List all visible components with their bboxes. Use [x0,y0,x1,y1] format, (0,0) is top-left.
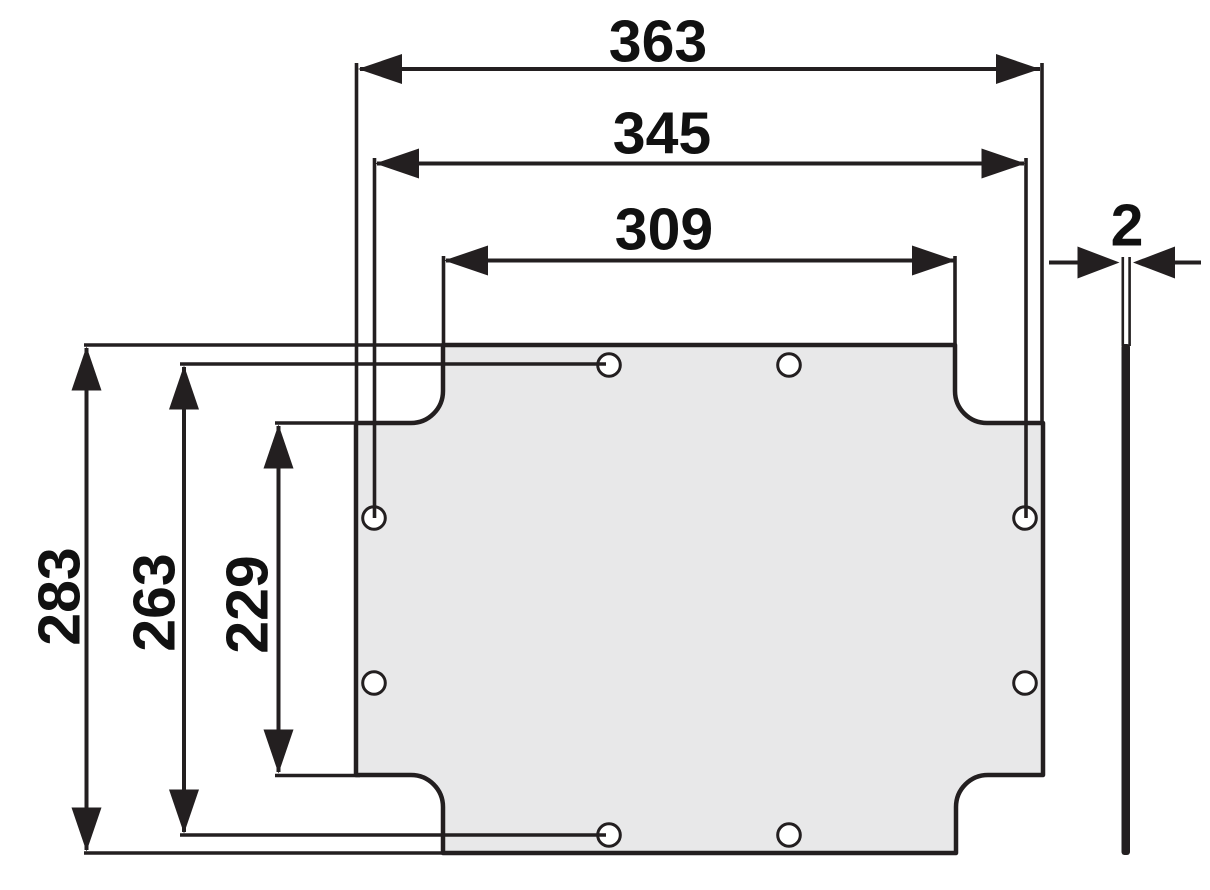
dimension 2: left tail line [1049,261,1080,265]
dimension 283: dimension line [85,348,89,850]
dimension 363: extension line left [355,63,359,424]
dimension 345: extension line left [373,158,377,518]
dimension 2: right arrowhead (pointing left) [1133,247,1175,279]
dimension 229: top arrowhead [264,425,294,469]
svg-text:309: 309 [615,197,713,263]
dimension 363: dimension line [360,67,1040,71]
hole top-left [598,354,621,377]
dimension 263: extension line top [180,362,606,366]
dimension 345: dimension line [377,162,1024,166]
dimension 229: extension line bottom [275,774,360,778]
svg-text:2: 2 [1111,193,1144,259]
dimension 309: dimension line [446,259,954,263]
dimension 345: left arrowhead [375,149,419,179]
dimension 309: right arrowhead [912,246,956,276]
dimension 283: top arrowhead [72,347,102,391]
plate outline (front view, gray mounting plate with notched corners) [356,345,1043,853]
dimension 345: right arrowhead [982,149,1026,179]
dimension 309: extension line left [442,256,446,345]
dimension 263: bottom arrowhead [169,790,199,834]
dimension 363: left arrowhead [358,54,402,84]
dimension 229: dimension line [277,426,281,772]
dimension 229: extension line top [275,421,360,425]
hole right-upper [1014,507,1037,530]
dimension 2: right tail line [1172,261,1201,265]
side view extension line right [1128,257,1131,346]
dimension 263: extension line bottom [180,833,606,837]
side view extension line left [1122,257,1125,346]
svg-text:363: 363 [609,9,707,75]
hole top-right [778,354,801,377]
dimension 263: top arrowhead [169,366,199,410]
dimension 363: extension line right [1040,63,1044,424]
dimension 2: left arrowhead (pointing right) [1078,247,1120,279]
dimension 309: extension line right [953,256,957,345]
svg-text:229: 229 [215,555,281,653]
dimension 283: bottom arrowhead [72,808,102,852]
dimension 283: extension line top [84,343,445,347]
svg-text:345: 345 [613,101,711,167]
hole left-lower [363,672,386,695]
svg-text:283: 283 [27,547,93,645]
dimension 345: extension line right [1024,158,1028,518]
hole bottom-right [778,824,801,847]
hole right-lower [1014,672,1037,695]
dimension 283: extension line bottom [84,851,445,855]
dimension 229: bottom arrowhead [264,730,294,774]
dimension 263: dimension line [182,367,186,832]
side view bar (plate thickness) [1122,344,1131,855]
hole left-upper [363,507,386,530]
dimension 309: left arrowhead [444,246,488,276]
dimension 363: right arrowhead [996,54,1040,84]
hole bottom-left [598,824,621,847]
svg-text:263: 263 [122,553,188,651]
